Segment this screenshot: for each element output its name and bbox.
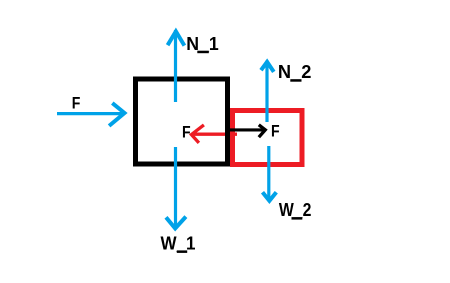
applied force arrow F (blue, pointing right at block M1) [57, 103, 125, 126]
svg-text:F: F [182, 123, 191, 142]
block M1 (large black box) [136, 79, 228, 164]
svg-text:F: F [72, 94, 81, 113]
contact force arrow F (black, pointing right inside block M2) [230, 125, 265, 137]
svg-text:F: F [271, 122, 280, 141]
weight arrow W_1 (blue, down from block M1) [166, 147, 186, 228]
block M2 (small red box) [233, 111, 303, 165]
reaction force arrow F (red, pointing left from block M2 into block M1) [191, 125, 237, 143]
weight arrow W_2 (blue, down from block M2) [263, 146, 277, 201]
normal force arrow N_1 (blue, up from block M1) [168, 30, 185, 102]
normal force arrow N_2 (blue, up from block M2) [261, 61, 274, 123]
